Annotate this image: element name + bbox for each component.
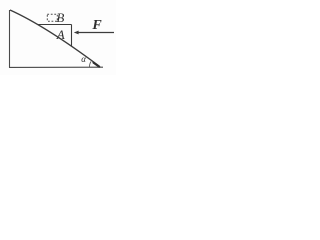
- wedge vertex dark segment: [94, 63, 100, 67]
- wedge incline hypotenuse: [10, 10, 99, 66]
- label A: [57, 28, 65, 41]
- block B dashed outline: [47, 14, 57, 21]
- block A top edge: [38, 24, 72, 26]
- wedge left vertical edge: [9, 10, 11, 68]
- block A right edge: [71, 25, 73, 47]
- label alpha: [81, 55, 86, 64]
- wedge ground bottom edge: [9, 66, 103, 68]
- label B: [56, 11, 64, 24]
- angle alpha arc: [89, 62, 91, 68]
- label F: [92, 19, 101, 33]
- force F arrow shaft: [78, 32, 115, 34]
- force F arrowhead: [74, 31, 79, 35]
